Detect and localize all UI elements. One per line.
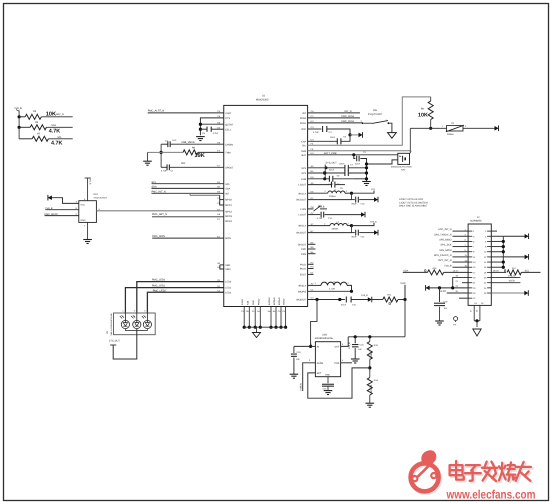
svg-text:C6: C6 [311,110,314,113]
svg-text:D5: D5 [311,176,314,179]
svg-text:LSW: LSW [301,178,306,181]
svg-text:15: 15 [465,264,467,266]
svg-text:VCC: VCC [81,203,86,206]
svg-text:20: 20 [484,277,486,279]
svg-text:9: 9 [473,251,474,253]
svg-text:A0: A0 [217,262,220,265]
svg-text:3: 3 [465,234,466,236]
svg-text:H3: H3 [311,266,314,269]
svg-text:L2: L2 [336,221,338,223]
svg-text:4.7K: 4.7K [51,139,63,145]
svg-text:9: 9 [465,249,466,251]
svg-text:D7: D7 [217,209,220,212]
svg-text:11: 11 [465,254,467,256]
svg-text:EVQ-P7A01P: EVQ-P7A01P [368,113,382,116]
svg-text:SPOUT: SPOUT [225,166,233,169]
svg-text:SYS_OUT: SYS_OUT [326,161,337,164]
svg-text:2: 2 [346,190,347,193]
svg-text:10K: 10K [418,111,428,117]
svg-text:C10: C10 [297,351,301,354]
svg-text:F1: F1 [452,122,455,125]
svg-text:3: 3 [473,235,474,237]
svg-text:1V8_B: 1V8_B [361,294,368,297]
svg-text:BTST: BTST [300,273,306,276]
svg-text:SDA: SDA [51,124,56,127]
svg-text:23: 23 [456,285,458,287]
svg-text:B3: B3 [217,190,220,193]
svg-text:BK2LX: BK2LX [299,225,306,228]
svg-text:PMC_SET_N: PMC_SET_N [152,213,167,216]
svg-text:68UF: 68UF [352,236,357,238]
svg-text:MPC3: MPC3 [225,215,232,218]
svg-text:6: 6 [76,207,77,210]
svg-text:1V8_B: 1V8_B [348,342,351,349]
svg-text:1V8_B: 1V8_B [370,220,377,223]
svg-text:27: 27 [473,297,475,299]
svg-text:SPS_MISO: SPS_MISO [439,238,451,241]
svg-text:SPS_MOSI: SPS_MOSI [439,249,451,252]
svg-text:LED0: LED0 [225,281,231,284]
svg-text:L1: L1 [334,189,336,191]
svg-text:100K: 100K [369,385,373,393]
svg-text:21: 21 [456,280,458,282]
svg-text:U10: U10 [93,193,97,196]
svg-text:C1: C1 [217,289,220,292]
svg-text:THM: THM [225,151,230,154]
svg-text:1V8_B: 1V8_B [444,264,451,267]
svg-text:C5: C5 [343,135,346,138]
svg-text:SC9M8250: SC9M8250 [470,219,482,222]
svg-text:L1OUT ACTS AS SWITCH: L1OUT ACTS AS SWITCH [399,201,427,204]
svg-text:GND: GND [252,300,255,305]
svg-text:E7: E7 [311,197,314,200]
svg-text:10UF: 10UF [330,136,335,138]
svg-text:INT: INT [302,112,306,115]
svg-text:SCL: SCL [152,181,157,184]
svg-text:BK1OUT: BK1OUT [296,199,306,202]
svg-text:26: 26 [484,292,486,294]
svg-text:10: 10 [484,251,486,253]
svg-text:330NH: 330NH [329,195,336,197]
svg-text:16: 16 [484,266,486,268]
svg-text:PMC_INT_N: PMC_INT_N [152,190,166,193]
svg-text:D8: D8 [217,121,220,124]
svg-text:5: 5 [465,239,466,241]
svg-text:24: 24 [484,287,486,289]
svg-text:G2: G2 [481,302,484,304]
svg-text:B8: B8 [311,241,314,244]
svg-text:F3: F3 [217,150,220,153]
svg-text:C18: C18 [360,344,364,347]
svg-text:5: 5 [473,240,474,242]
svg-text:E6: E6 [311,190,314,193]
svg-text:1UF: 1UF [358,348,362,350]
svg-text:29: 29 [476,310,478,312]
svg-text:C4: C4 [217,110,220,113]
svg-text:PMC_MON: PMC_MON [152,235,165,238]
svg-text:L1OUT: L1OUT [298,214,306,217]
svg-text:CELL: CELL [225,128,231,131]
svg-text:U2B: U2B [322,333,327,336]
svg-text:4: 4 [98,208,99,211]
svg-text:SCL: SCL [225,183,230,186]
svg-text:1UF: 1UF [172,139,176,142]
svg-text:LED2: LED2 [225,291,231,294]
svg-text:R14: R14 [374,379,378,382]
svg-text:C2: C2 [165,140,168,143]
svg-text:60MAH4.8LIPOLYMER: 60MAH4.8LIPOLYMER [391,165,412,167]
svg-text:QSTRT: QSTRT [225,123,233,126]
svg-text:1V8_B: 1V8_B [45,207,52,210]
svg-text:D1: D1 [217,285,220,288]
svg-text:C5: C5 [202,132,205,135]
svg-text:L2OUT: L2OUT [298,184,306,187]
svg-text:G8: G8 [311,206,314,209]
svg-text:USB_VBUS: USB_VBUS [181,141,194,144]
svg-text:POK: POK [334,362,339,365]
svg-text:C3: C3 [363,151,366,153]
svg-text:H4: H4 [268,310,271,312]
svg-text:1V2: 1V2 [371,188,375,191]
svg-text:OPT_INT_N: OPT_INT_N [438,259,451,262]
svg-text:39K: 39K [195,152,205,159]
svg-text:SDA: SDA [152,185,157,188]
svg-text:VLED: VLED [440,290,446,293]
svg-text:BATT_PMB: BATT_PMB [324,152,336,155]
svg-text:R5: R5 [33,110,36,113]
svg-text:0: 0 [389,301,391,306]
svg-text:N1B: N1B [246,301,249,305]
svg-text:U3: U3 [106,331,109,334]
svg-text:SET: SET [317,372,322,375]
svg-text:SML-LX0404SIUPGUSB: SML-LX0404SIUPGUSB [110,313,112,335]
svg-text:1: 1 [442,125,443,128]
svg-text:2: 2 [348,282,349,285]
svg-text:B6: B6 [311,251,314,254]
svg-text:CHGIN: CHGIN [225,143,233,146]
svg-text:STS_OUT: STS_OUT [109,339,120,342]
svg-text:MON: MON [225,237,231,240]
svg-text:R6: R6 [35,121,38,124]
svg-text:B1GND: B1GND [268,297,271,305]
svg-text:22: 22 [484,282,486,284]
svg-text:CPP: CPP [301,248,306,251]
svg-text:C5: C5 [278,310,281,312]
svg-text:C4: C4 [311,126,314,129]
svg-text:25: 25 [456,290,458,292]
svg-text:E7: E7 [217,218,220,221]
svg-text:L1EN: L1EN [300,208,306,211]
svg-text:1: 1 [315,282,316,285]
svg-text:0: 0 [424,268,426,273]
svg-text:1V8EN: 1V8EN [299,384,302,391]
svg-text:P3: P3 [453,323,456,326]
svg-text:B7: B7 [311,230,314,233]
svg-text:www.elecfans.com: www.elecfans.com [446,488,536,502]
svg-text:MAX20303: MAX20303 [256,98,268,101]
svg-text:1: 1 [411,150,412,152]
svg-text:261K: 261K [369,351,373,359]
svg-text:7: 7 [473,246,474,248]
svg-text:1: 1 [324,190,325,193]
svg-text:PMC_LED2: PMC_LED2 [153,289,166,292]
svg-text:12: 12 [484,256,486,258]
svg-text:22UF: 22UF [355,163,360,165]
svg-text:15: 15 [473,266,475,268]
svg-text:5: 5 [144,310,145,312]
svg-text:C13: C13 [323,387,327,389]
svg-text:17: 17 [473,271,475,273]
svg-text:B9: B9 [311,246,314,249]
svg-text:BAT: BAT [401,169,405,172]
svg-text:G1: G1 [217,279,220,282]
svg-text:D2: D2 [311,120,314,123]
svg-text:CTS: CTS [225,117,230,120]
svg-text:A: A [134,315,135,317]
svg-text:2: 2 [361,120,362,123]
svg-text:19: 19 [456,275,458,277]
svg-text:C4: C4 [329,131,332,134]
svg-text:C6: C6 [217,115,220,118]
svg-text:3: 3 [309,359,310,361]
svg-text:PMC_LED0: PMC_LED0 [152,278,165,281]
svg-text:3: 3 [76,201,77,204]
svg-text:B3GND: B3GND [278,297,281,305]
svg-text:PMC_LED1: PMC_LED1 [152,284,165,287]
svg-text:14: 14 [484,261,486,263]
svg-text:4: 4 [342,359,343,361]
svg-text:1UF: 1UF [296,358,300,361]
svg-text:D6: D6 [217,213,220,216]
svg-text:SW: SW [373,109,377,112]
svg-text:0: 0 [504,268,506,273]
svg-text:GND: GND [325,374,330,377]
svg-text:18: 18 [484,271,486,273]
svg-text:H5: H5 [217,141,220,144]
svg-text:R7: R7 [37,132,40,135]
svg-text:C9: C9 [340,187,343,189]
svg-text:CAP: CAP [301,140,306,143]
svg-text:5: 5 [84,198,85,201]
svg-text:F5: F5 [311,148,314,151]
svg-text:2: 2 [465,125,466,128]
svg-text:THM: THM [301,150,306,153]
svg-text:2: 2 [485,230,486,232]
svg-text:22UF: 22UF [339,162,344,164]
svg-text:SYS: SYS [301,172,306,175]
svg-text:C16: C16 [444,300,448,303]
svg-text:R8: R8 [192,146,195,149]
svg-text:R16: R16 [433,267,437,269]
svg-text:G1: G1 [475,302,478,304]
svg-text:1: 1 [473,230,474,232]
svg-text:74LVCE1G07: 74LVCE1G07 [93,196,106,199]
svg-text:PMC_ALRT_N: PMC_ALRT_N [148,109,164,112]
svg-text:68UF: 68UF [352,203,357,205]
svg-text:A: A [122,315,123,317]
svg-text:MPC2: MPC2 [225,210,232,213]
svg-text:ACC_INT_N: ACC_INT_N [438,228,451,231]
svg-text:19: 19 [473,277,475,279]
svg-text:VLED: VLED [509,280,515,283]
svg-text:3: 3 [134,310,135,312]
svg-text:4.7K: 4.7K [49,128,61,134]
svg-text:L3: L3 [333,281,335,283]
svg-text:SYS: SYS [301,167,306,170]
svg-text:22UF: 22UF [341,304,346,306]
svg-text:C2: C2 [311,115,314,118]
svg-text:SCL: SCL [525,269,530,272]
svg-text:1V8_B: 1V8_B [14,107,22,110]
svg-text:SDA: SDA [403,269,408,272]
svg-text:PVLD: PVLD [300,263,306,266]
svg-text:4: 4 [485,235,486,237]
svg-text:1: 1 [324,223,325,226]
svg-text:MPC1: MPC1 [225,204,232,207]
svg-text:8: 8 [485,246,486,248]
svg-text:1: 1 [386,119,387,122]
svg-text:SRP: SRP [225,264,230,267]
svg-text:BK1LX: BK1LX [299,192,306,195]
svg-text:A: A [144,315,145,317]
svg-text:Z3: Z3 [282,310,284,312]
svg-text:R10: R10 [374,344,378,347]
svg-text:13: 13 [473,261,475,263]
svg-text:A2: A2 [311,283,314,286]
svg-text:BAT: BAT [302,154,307,157]
svg-text:B2GND: B2GND [273,297,276,305]
svg-text:VLID: VLID [400,282,405,285]
svg-text:E1: E1 [252,310,255,312]
svg-text:A5: A5 [273,310,276,312]
svg-text:C10: C10 [361,203,365,205]
svg-text:7: 7 [84,224,85,227]
svg-text:N1AO: N1AO [241,299,244,305]
svg-text:23: 23 [473,287,475,289]
svg-text:4.7UF: 4.7UF [161,170,167,173]
svg-text:SPS_CSACC_N: SPS_CSACC_N [434,254,452,257]
svg-text:B4: B4 [311,170,314,173]
svg-text:13: 13 [465,259,467,261]
svg-text:JB-18: JB-18 [493,270,499,272]
svg-text:R9: R9 [421,107,424,110]
svg-text:SPS_TXRDY_N: SPS_TXRDY_N [434,233,451,236]
svg-text:330NH: 330NH [331,227,338,229]
svg-text:1UF: 1UF [444,307,448,309]
svg-text:PFN1: PFN1 [300,122,306,125]
svg-text:J2: J2 [477,216,480,219]
svg-text:R17: R17 [512,267,516,269]
svg-text:D4: D4 [217,126,220,129]
svg-text:ALRT: ALRT [225,112,231,115]
svg-text:A7: A7 [311,223,314,226]
svg-text:C6: C6 [337,174,340,176]
svg-text:H2: H2 [311,261,314,264]
svg-text:27: 27 [470,310,472,312]
svg-text:R11: R11 [388,293,392,296]
svg-text:10K: 10K [46,110,56,117]
svg-text:A5: A5 [311,182,314,185]
svg-text:SDA: SDA [225,187,230,190]
svg-text:C3: C3 [241,310,244,312]
svg-text:B1: B1 [217,181,220,184]
svg-text:D5: D5 [246,310,249,312]
svg-text:E2: E2 [217,235,220,238]
svg-text:5: 5 [342,343,343,345]
svg-text:PMC_PFN1: PMC_PFN1 [341,120,354,123]
svg-text:AGND: AGND [283,299,286,305]
svg-text:LED1: LED1 [225,287,231,290]
svg-text:MAX8510EXK29+: MAX8510EXK29+ [315,337,334,340]
svg-text:SPS_SCK: SPS_SCK [440,243,451,246]
svg-text:MPC0: MPC0 [225,199,232,202]
svg-text:F2: F2 [217,164,220,167]
svg-text:4.7UF: 4.7UF [317,217,323,219]
svg-text:BAT_N: BAT_N [56,113,64,116]
svg-text:PGND: PGND [257,299,260,305]
svg-text:C7: C7 [350,164,353,166]
svg-text:D1: D1 [311,272,314,275]
svg-text:SRN: SRN [225,268,230,271]
svg-text:C12: C12 [328,217,332,219]
svg-text:GND: GND [81,219,86,222]
svg-text:C15: C15 [352,304,356,306]
svg-text:C14: C14 [361,236,365,238]
svg-text:21: 21 [473,282,475,284]
svg-text:7: 7 [465,244,466,246]
svg-text:SCL: SCL [57,136,62,139]
svg-text:1: 1 [122,310,123,312]
svg-text:BK3OUT: BK3OUT [296,298,306,301]
svg-text:2: 2 [348,223,349,226]
svg-text:300MA: 300MA [447,133,454,135]
svg-text:U1: U1 [262,94,265,97]
svg-text:C1: C1 [171,170,174,173]
svg-text:A4: A4 [311,165,314,168]
svg-text:BVLD: BVLD [300,267,306,270]
svg-text:A3: A3 [257,310,260,312]
svg-text:D4: D4 [311,138,314,141]
svg-text:PMC_PFN2: PMC_PFN2 [341,115,354,118]
svg-text:1: 1 [465,228,466,230]
svg-text:PMC_MPC0: PMC_MPC0 [45,213,58,216]
svg-text:4.7UF: 4.7UF [213,132,219,135]
svg-text:TPL: TPL [302,144,306,147]
svg-text:OUT: OUT [334,345,339,348]
svg-text:B2: B2 [217,186,220,189]
svg-text:MPC4: MPC4 [225,220,232,223]
svg-text:VDC: VDC [301,128,306,131]
svg-text:PFN2: PFN2 [300,117,306,120]
svg-text:IN: IN [317,345,319,348]
svg-text:INT_N: INT_N [345,110,352,113]
svg-text:G7: G7 [311,212,314,215]
svg-text:F4: F4 [311,142,314,145]
svg-text:L2OUT ACTS AS LDO: L2OUT ACTS AS LDO [399,198,423,201]
svg-text:4.7UF: 4.7UF [313,131,319,134]
svg-text:CPN: CPN [301,253,306,256]
svg-text:ONLY ONE IS AVAILABLE: ONLY ONE IS AVAILABLE [399,204,427,207]
svg-text:BK3PG: BK3PG [298,290,306,293]
svg-text:25: 25 [473,292,475,294]
svg-text:22UF: 22UF [329,169,334,171]
svg-text:1V8_B: 1V8_B [508,274,515,277]
svg-text:BK2OUT: BK2OUT [296,232,306,235]
svg-text:SHDN: SHDN [317,362,324,365]
svg-text:6: 6 [485,240,486,242]
svg-text:INT: INT [225,192,229,195]
svg-text:1V8_B: 1V8_B [89,178,92,185]
